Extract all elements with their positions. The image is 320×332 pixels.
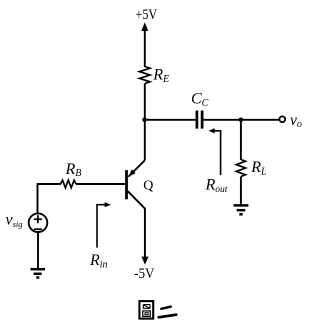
wire RE to junction bbox=[144, 84, 146, 121]
wire capacitor to output terminal bbox=[204, 119, 280, 121]
-5V supply arrow bbox=[142, 257, 149, 265]
ground (right, below RL) bbox=[234, 205, 249, 214]
ground (left, below vsig) bbox=[31, 269, 46, 277]
wire base (left of RB) bbox=[38, 183, 61, 185]
+5V supply arrow bbox=[141, 22, 148, 67]
terminal vo bbox=[279, 116, 285, 122]
transistor Q bbox=[127, 160, 145, 208]
resistor RB bbox=[61, 180, 77, 188]
caption 二 (hand-drawn) bbox=[159, 307, 177, 318]
svg-text:Q: Q bbox=[143, 179, 153, 194]
wire collector vertical bbox=[144, 208, 146, 259]
arrow Rout bbox=[209, 128, 221, 175]
node junction at RL bbox=[239, 118, 244, 123]
wire left vertical (corner to source) bbox=[37, 183, 39, 214]
capacitor CC bbox=[197, 111, 202, 129]
wire junction to RL bbox=[240, 120, 242, 160]
wire RL to ground bbox=[240, 177, 242, 205]
node junction at emitter/CC bbox=[142, 118, 147, 123]
wire source to ground bbox=[37, 232, 39, 269]
wire junction to capacitor bbox=[145, 119, 196, 121]
wire base (RB to transistor) bbox=[76, 183, 125, 185]
resistor RE bbox=[139, 67, 150, 84]
svg-text:-5V: -5V bbox=[134, 266, 155, 282]
wire emitter vertical (junction down to corner) bbox=[144, 120, 146, 161]
svg-text:+5V: +5V bbox=[136, 7, 158, 23]
source vsig bbox=[29, 213, 48, 232]
resistor RL bbox=[236, 160, 245, 177]
caption 圖 (hand-drawn) bbox=[139, 301, 153, 319]
arrow Rin bbox=[97, 202, 111, 248]
